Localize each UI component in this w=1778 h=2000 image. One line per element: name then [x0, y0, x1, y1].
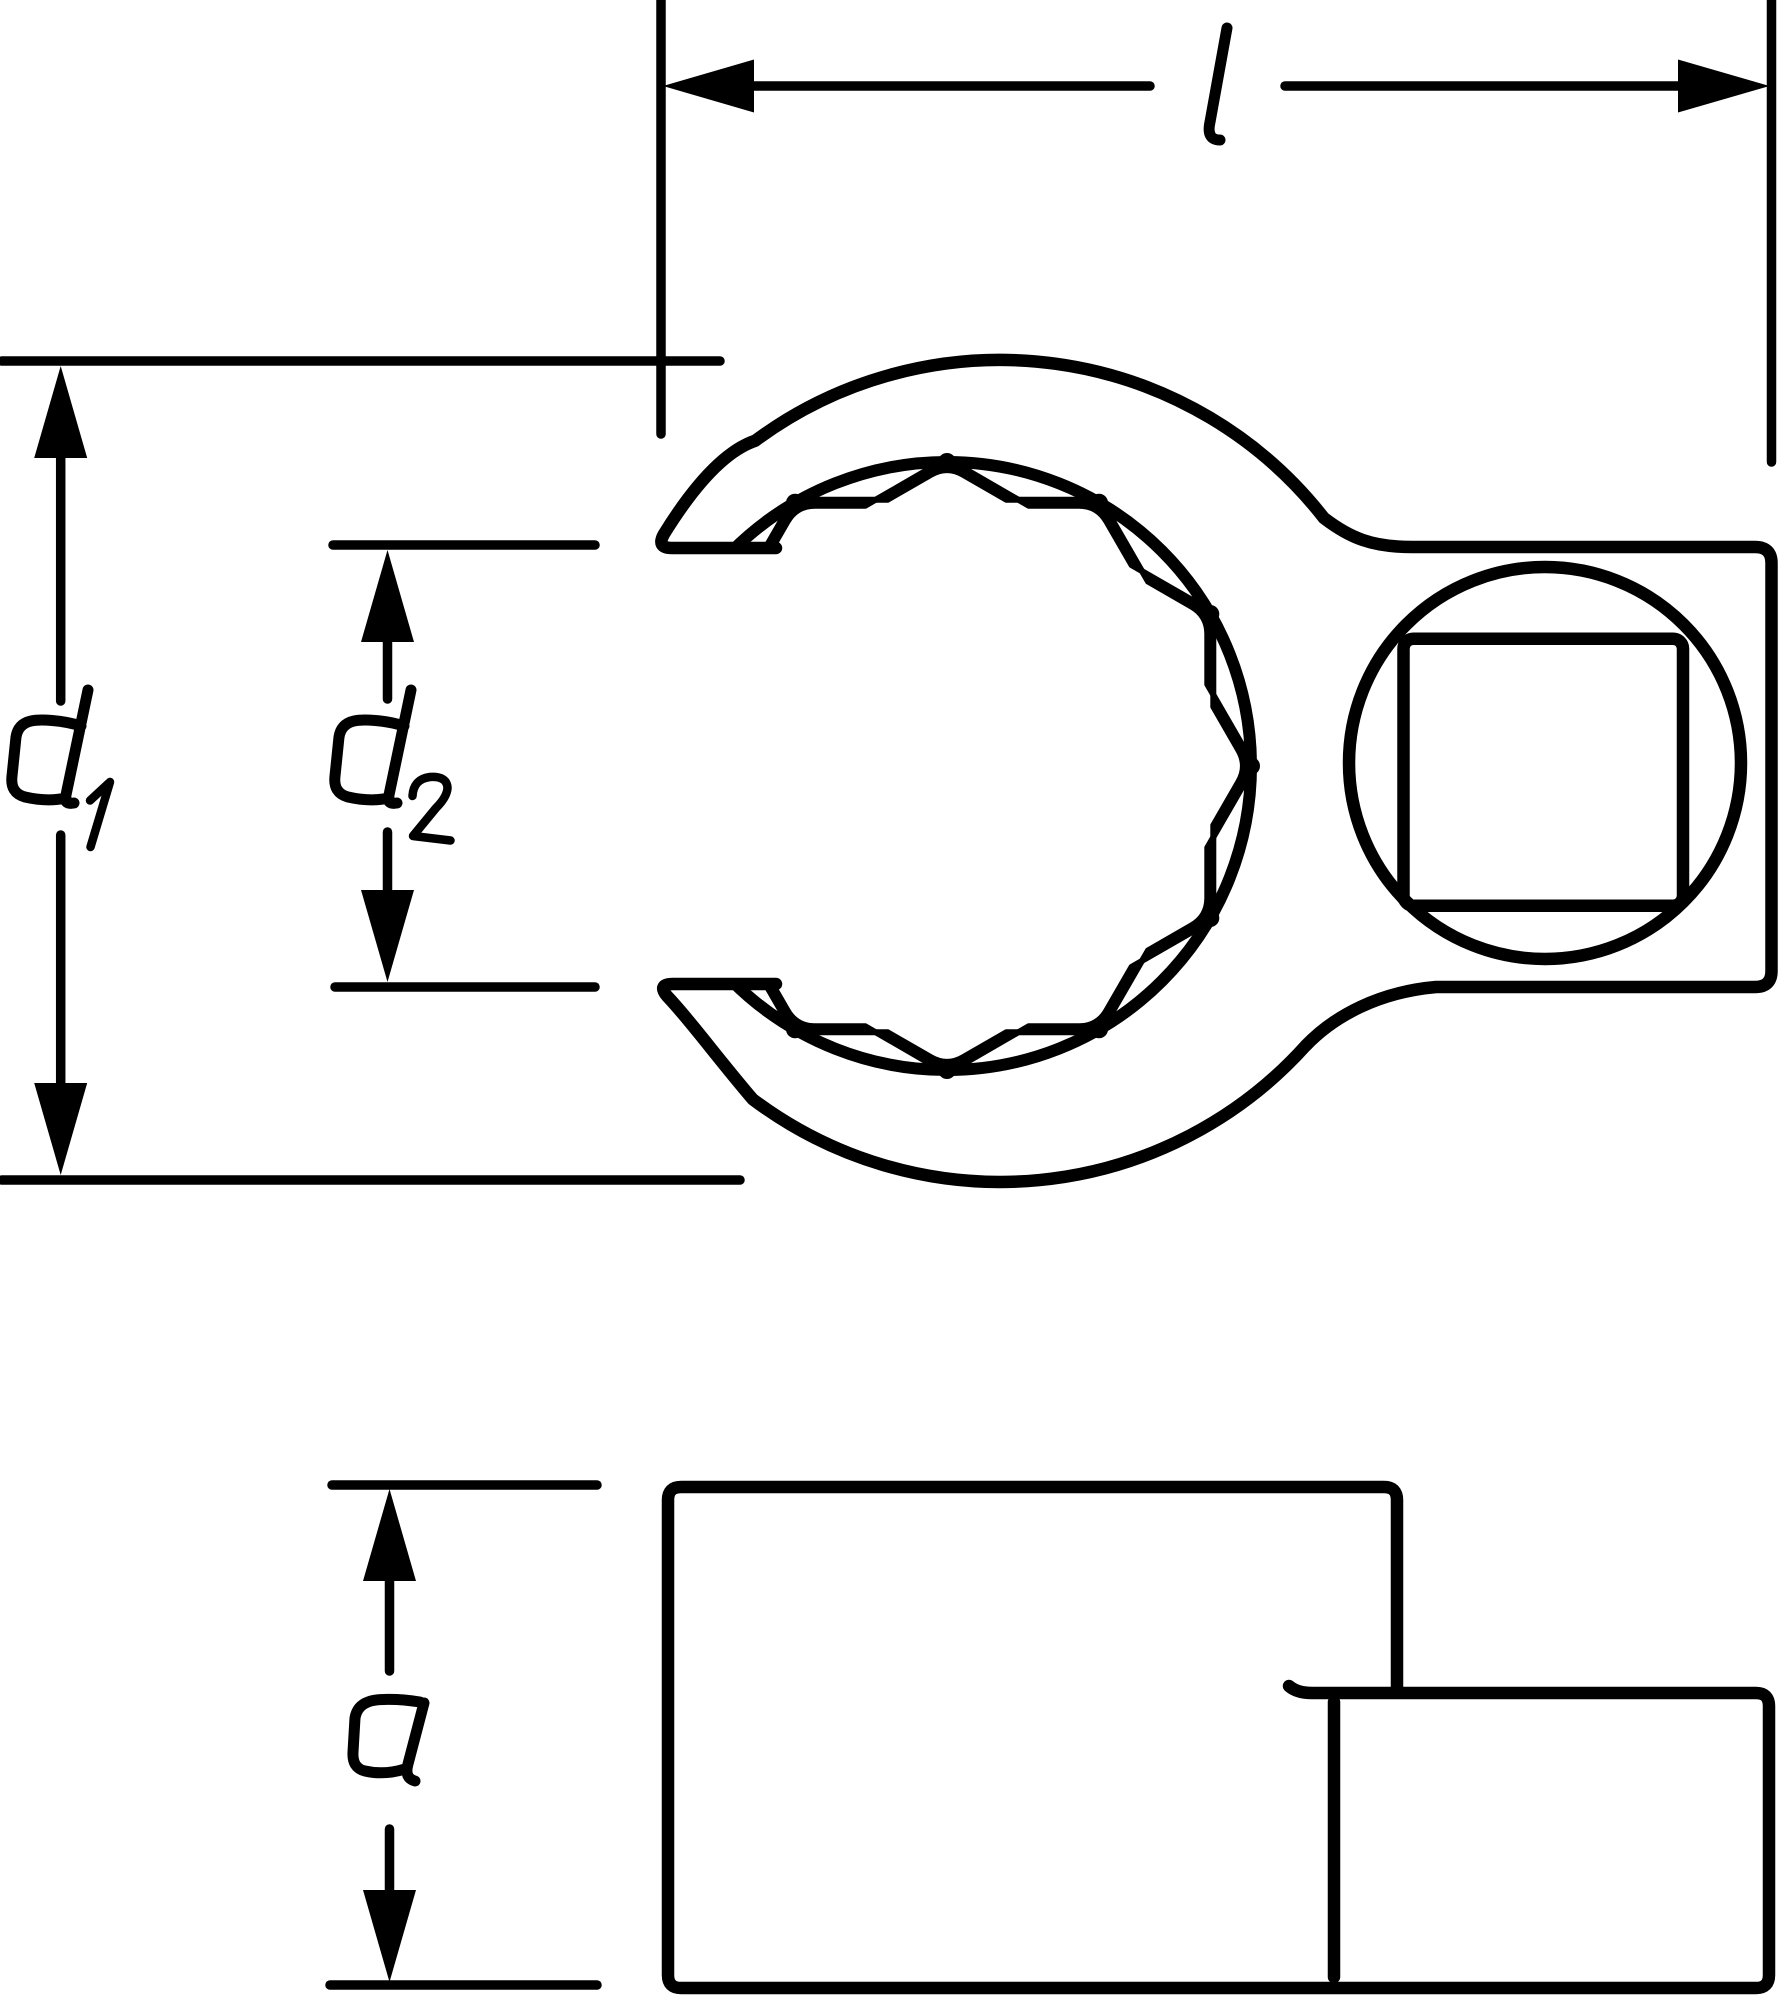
arrowhead d2 up — [361, 550, 414, 642]
extension line a bottom — [330, 1980, 597, 1990]
dimension line a shaft bottom — [385, 1829, 395, 1893]
arrowhead l left — [663, 60, 754, 113]
serration vertex knots — [786, 453, 1260, 1079]
extension line d1 bottom — [2, 1175, 740, 1185]
drive square — [1404, 639, 1684, 906]
serration hexagon B (point top) — [684, 467, 1211, 1065]
dimension line l shaft right — [1285, 81, 1686, 91]
extension line d1 top — [2, 356, 720, 366]
dimension line d1 shaft top — [56, 452, 66, 701]
serration hexagon A (flat top) — [648, 503, 1246, 1030]
drive square hole circle — [1349, 567, 1741, 959]
arrowhead d1 down — [34, 1083, 87, 1175]
arrowhead l right — [1678, 60, 1770, 113]
extension line a top — [332, 1480, 597, 1490]
label l — [1209, 28, 1227, 140]
serration root circle — [643, 462, 1251, 1070]
dimension line d2 shaft bottom — [383, 832, 393, 893]
extension line l right — [1767, 0, 1777, 462]
arrowhead a down — [363, 1890, 416, 1982]
extension line d2 bottom — [335, 982, 595, 992]
arrowhead d1 up — [34, 366, 87, 458]
label d1 subscript 1 — [90, 782, 110, 847]
extension line d2 top — [333, 540, 595, 550]
label d2 subscript 2 — [413, 777, 451, 841]
arrowhead d2 down — [361, 890, 414, 982]
dimension line a shaft top — [385, 1578, 395, 1671]
wrench outer profile with drive housing — [661, 360, 1771, 1182]
side view inner edge line — [1328, 1702, 1341, 1977]
extension line l left — [656, 0, 666, 434]
dimension line d2 shaft top — [383, 640, 393, 699]
label a — [353, 1699, 424, 1781]
dimension line l shaft left — [745, 81, 1150, 91]
dimension line d1 shaft bottom — [56, 835, 66, 1089]
label d2 glyph d — [335, 690, 411, 803]
side view body outline — [668, 1487, 1769, 1988]
label d1 glyph d — [12, 690, 88, 803]
arrowhead a up — [363, 1489, 416, 1581]
